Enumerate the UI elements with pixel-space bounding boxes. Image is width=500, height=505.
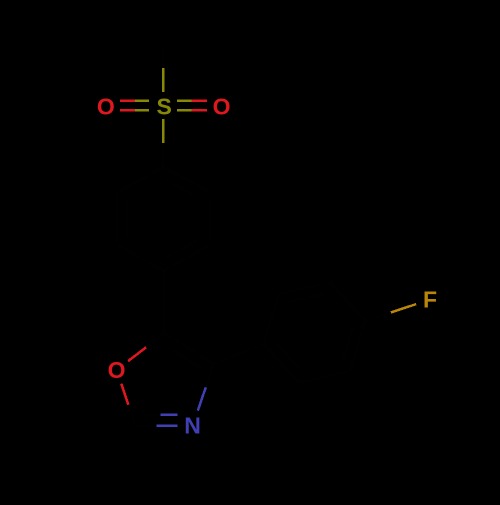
svg-text:N: N — [184, 413, 201, 439]
bond BR-BL ring2 — [299, 371, 350, 383]
double bond C5=C6 ring1 — [116, 193, 119, 246]
bond N3-C4 oxazole — [198, 387, 206, 410]
bond C5-O1 oxazole — [146, 333, 164, 347]
bond C2-C3 ring1 — [209, 193, 212, 246]
double bond C2=N3 oxazole — [136, 425, 157, 428]
bond oxazole-fluorophenyl — [214, 344, 264, 364]
bond TR-P ring2 — [330, 283, 366, 321]
svg-text:F: F — [423, 287, 437, 313]
bond I-TL ring2 — [263, 294, 279, 344]
bond ring1-oxazole — [162, 271, 165, 333]
bond CH3-S — [162, 44, 165, 68]
double bond C3=C4 ring1 — [164, 245, 210, 271]
bond S-C1 — [162, 119, 165, 143]
double bond TL=TR ring2 — [279, 283, 330, 295]
bond C-F — [366, 313, 391, 321]
bond C4-C5 ring1 — [117, 245, 163, 271]
double bond C1=C2 ring1 — [163, 167, 209, 193]
double bond P=BR ring2 — [350, 321, 366, 371]
double bond S=O right — [177, 99, 192, 102]
svg-text:S: S — [157, 94, 172, 120]
double bond S=O left — [120, 99, 135, 102]
double bond C4=C5 oxazole — [164, 333, 214, 364]
svg-text:O: O — [108, 357, 126, 383]
bond O1-C2 oxazole — [121, 384, 128, 405]
bond C6-C1 ring1 — [117, 167, 163, 193]
double bond BL=I ring2 — [263, 344, 299, 383]
svg-text:O: O — [213, 94, 231, 120]
svg-text:O: O — [97, 94, 115, 120]
